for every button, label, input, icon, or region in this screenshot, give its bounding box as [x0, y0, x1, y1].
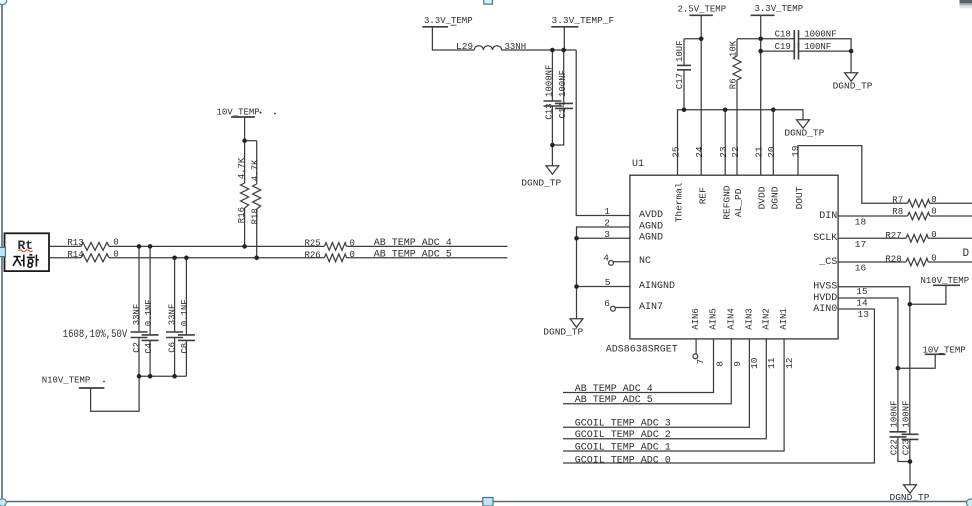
ground DGND_TP under C13 C14: [551, 145, 553, 166]
node C18 C19 ground: [849, 49, 854, 54]
svg-text:AB TEMP ADC 5: AB TEMP ADC 5: [374, 250, 452, 261]
svg-text:D: D: [963, 248, 970, 260]
svg-text:DGND: DGND: [770, 186, 781, 209]
capacitor C18: [793, 30, 795, 48]
frame left border: [1, 4, 3, 499]
svg-text:21: 21: [753, 146, 764, 158]
node 3.3V R6: [758, 37, 763, 42]
power 10V_TEMP left bar: [231, 116, 255, 118]
wire ground bus over U1: [678, 110, 804, 175]
power 10V_TEMP right bar: [925, 353, 946, 355]
node 2.5V C17: [699, 37, 704, 42]
wire pin 18 DIN to R8: [838, 215, 907, 217]
ground DGND_TP under AGND chain: [576, 287, 578, 319]
node C22 C23 ground: [908, 459, 913, 464]
svg-text:3.3V_TEMP_F: 3.3V_TEMP_F: [552, 15, 615, 26]
svg-text:0: 0: [931, 230, 936, 240]
wire R16 bottom: [244, 208, 246, 246]
svg-text:AGND: AGND: [639, 221, 663, 232]
svg-text:R27: R27: [885, 231, 901, 241]
wire AVDD feed down to pin 1: [576, 50, 630, 216]
svg-text:10V_TEMP: 10V_TEMP: [217, 108, 260, 118]
op-amp U1 body ADS8638SRGET: [630, 175, 838, 339]
svg-text:DGND_TP: DGND_TP: [833, 81, 873, 92]
node wire2 C8 tap: [184, 255, 189, 260]
svg-text:_CS: _CS: [818, 257, 837, 268]
svg-text:17: 17: [855, 239, 866, 250]
svg-text:R26: R26: [305, 250, 321, 260]
pin 4 NC stub with no-connect circle: [613, 261, 630, 263]
svg-text:R8: R8: [892, 207, 903, 217]
svg-text:AIN3: AIN3: [744, 308, 754, 330]
svg-text:100NF: 100NF: [804, 42, 831, 52]
svg-text:GCOIL TEMP ADC 1: GCOIL TEMP ADC 1: [575, 442, 671, 453]
capacitor C22: [897, 368, 899, 432]
svg-text:100NF: 100NF: [558, 70, 568, 97]
svg-text:33NH: 33NH: [505, 42, 527, 52]
svg-text:R7: R7: [892, 196, 903, 206]
svg-text:14: 14: [856, 297, 868, 308]
node wire1 C4 tap: [148, 244, 153, 249]
svg-text:10K: 10K: [728, 40, 738, 57]
svg-text:C19: C19: [775, 42, 791, 52]
wire N10V_TEMP stub: [910, 285, 946, 304]
svg-text:0.1NF: 0.1NF: [144, 299, 154, 326]
svg-text:L29: L29: [456, 41, 473, 52]
node caps bottom C4: [148, 374, 153, 379]
capacitor C14: [563, 50, 565, 103]
wire HVSS down to C23: [909, 304, 911, 434]
svg-text:0: 0: [931, 195, 936, 205]
wire R6 bottom to pin 22 AL_PD: [736, 80, 738, 175]
wire AGND chain pins 2 3 5: [577, 227, 630, 287]
wire R27 right: [928, 237, 972, 239]
svg-text:AGND: AGND: [639, 233, 663, 244]
resistor R25: [324, 243, 346, 251]
svg-text:R28: R28: [885, 255, 901, 265]
svg-text:C6: C6: [167, 342, 177, 353]
node bus pin23: [723, 108, 728, 113]
speck near N10V_TEMP: [103, 381, 105, 383]
capacitor C17: [683, 39, 685, 66]
node AVDD C13: [550, 48, 555, 53]
svg-text:1000NF: 1000NF: [545, 65, 555, 97]
wire pin 16 _CS to R28: [838, 261, 906, 263]
wire caps bottom bus: [139, 375, 186, 377]
svg-text:AIN4: AIN4: [726, 308, 736, 330]
svg-text:AVDD: AVDD: [639, 210, 663, 221]
svg-text:DGND_TP: DGND_TP: [784, 128, 824, 139]
svg-text:3.3V_TEMP: 3.3V_TEMP: [424, 16, 473, 26]
svg-text:2: 2: [604, 218, 610, 229]
selection handle top-left circle: [0, 0, 7, 5]
selection handle bottom-middle square: [483, 498, 493, 506]
resistor R13: [81, 242, 109, 250]
wire pin 20 DGND stub: [772, 110, 774, 175]
wire 3.3V_TEMP_F stub: [563, 27, 565, 50]
resistor R14: [81, 254, 109, 262]
svg-text:1000NF: 1000NF: [804, 30, 836, 40]
wire R18 bottom: [256, 209, 258, 258]
svg-text:HVSS: HVSS: [813, 282, 837, 293]
wire pin 8 AIN5 to AB TEMP ADC 4: [563, 339, 714, 393]
svg-text:DVDD: DVDD: [757, 186, 768, 209]
svg-text:0: 0: [113, 238, 118, 248]
wire R6 top link: [737, 38, 761, 40]
resistor R6: [736, 39, 738, 56]
svg-text:AIN0: AIN0: [813, 304, 837, 315]
node AGND pin5: [574, 284, 579, 289]
power 3.3V_TEMP_F bar: [551, 26, 578, 28]
wire 2.5V_TEMP feed to pin 24 REF: [700, 15, 702, 175]
capacitor C13: [551, 50, 553, 101]
svg-text:AIN7: AIN7: [639, 302, 663, 313]
svg-text:GCOIL TEMP ADC 0: GCOIL TEMP ADC 0: [575, 456, 671, 467]
svg-text:1: 1: [604, 206, 610, 217]
capacitor C2: [138, 246, 140, 332]
frame bottom border: [5, 501, 972, 503]
svg-text:16: 16: [855, 263, 867, 274]
svg-text:N10V_TEMP: N10V_TEMP: [42, 376, 91, 386]
svg-text:15: 15: [856, 286, 868, 297]
svg-text:9: 9: [732, 361, 743, 367]
ground DGND_TP under C18 C19: [850, 51, 852, 73]
wire pin 3: [577, 237, 630, 239]
block Korean text 저항: [13, 255, 39, 268]
node caps bottom C2: [137, 374, 142, 379]
node C13 C14 ground: [550, 143, 555, 148]
selection handle bottom-left circle: [0, 499, 6, 506]
wire R7 right: [930, 202, 972, 204]
svg-text:AIN1: AIN1: [779, 308, 789, 330]
inductor L29: [474, 46, 501, 50]
svg-text:20: 20: [766, 146, 777, 158]
speck dash after 3.3V_TEMP bar: [451, 24, 457, 26]
pin 6 AIN7 stub with no-connect circle: [615, 307, 630, 309]
svg-text:DGND_TP: DGND_TP: [543, 327, 583, 338]
wire pin 17 SCLK to R27: [838, 237, 906, 239]
wire pin 12 AIN1 to GCOIL TEMP ADC 1: [563, 339, 784, 451]
wire 10V_TEMP stub: [898, 354, 935, 368]
wire C18 left link: [761, 38, 795, 40]
svg-text:11: 11: [766, 357, 777, 369]
svg-text:1608,10%,50V: 1608,10%,50V: [63, 329, 128, 341]
svg-text:AB TEMP ADC 4: AB TEMP ADC 4: [575, 384, 653, 395]
svg-text:AIN2: AIN2: [761, 308, 771, 330]
svg-text:100NF: 100NF: [889, 400, 899, 427]
node wire1 R16 tap: [242, 244, 247, 249]
svg-text:HVDD: HVDD: [813, 293, 837, 304]
node AVDD C14: [561, 48, 566, 53]
wire 10V_TEMP stub: [244, 117, 246, 141]
wire pin 13 AIN0 to GCOIL TEMP ADC 0: [563, 309, 874, 463]
wire pin 10 AIN3 to GCOIL TEMP ADC 3: [563, 339, 749, 427]
wire R14 bus left: [49, 257, 81, 259]
svg-text:13: 13: [858, 309, 870, 320]
resistor R7: [908, 200, 930, 208]
spellcheck squiggle under Rt: [19, 250, 33, 252]
svg-text:C22: C22: [889, 439, 899, 455]
power N10V_TEMP left bar: [79, 387, 104, 389]
svg-text:0: 0: [113, 249, 118, 259]
svg-text:R6: R6: [728, 78, 738, 89]
svg-text:REF: REF: [697, 187, 708, 204]
capacitor C23: [902, 433, 919, 435]
wire pin 9 AIN4 to AB TEMP ADC 5: [563, 339, 731, 404]
svg-text:25: 25: [670, 146, 681, 158]
svg-text:AB TEMP ADC 5: AB TEMP ADC 5: [575, 395, 653, 406]
svg-text:DOUT: DOUT: [794, 186, 805, 209]
svg-text:AB TEMP ADC 4: AB TEMP ADC 4: [374, 238, 452, 249]
svg-text:C23: C23: [902, 439, 912, 455]
node 3.3V C19: [758, 49, 763, 54]
svg-text:3: 3: [604, 229, 610, 240]
svg-text:33NF: 33NF: [167, 304, 177, 326]
wire C18 right: [799, 39, 852, 51]
svg-text:2.5V_TEMP: 2.5V_TEMP: [678, 4, 727, 14]
wire pin 19 DOUT to R7: [798, 146, 908, 204]
pin 7 AIN6 stub with no-connect circle: [695, 339, 697, 354]
power 2.5V_TEMP bar: [689, 14, 712, 16]
svg-text:NC: NC: [639, 256, 651, 267]
svg-text:18: 18: [855, 217, 867, 228]
selection handle top-middle square: [484, 0, 493, 4]
svg-text:7: 7: [695, 359, 706, 365]
svg-text:4.7K: 4.7K: [251, 159, 261, 181]
resistor R18: [253, 184, 261, 209]
svg-text:R13: R13: [67, 238, 83, 248]
svg-text:R16: R16: [237, 207, 247, 223]
resistor R16: [241, 183, 249, 208]
svg-text:0: 0: [350, 250, 355, 260]
node HVDD 10V: [896, 366, 901, 371]
speck near 10V_TEMP: [260, 112, 262, 114]
wire C19 right: [799, 50, 852, 52]
resistor R28: [906, 258, 928, 266]
svg-text:C18: C18: [775, 29, 791, 39]
svg-text:DGND_TP: DGND_TP: [890, 492, 930, 503]
wire R28 right: [928, 261, 972, 263]
svg-text:10V_TEMP: 10V_TEMP: [923, 345, 966, 355]
node wire2 R18 tap: [254, 255, 259, 260]
wire pin 15 HVSS to N10V_TEMP: [838, 287, 910, 305]
resistor R8: [908, 212, 930, 220]
wire bus2 right AB TEMP ADC 5: [347, 257, 508, 259]
svg-text:U1: U1: [632, 159, 644, 170]
wire L29 to AVDD node: [502, 49, 577, 51]
svg-text:0: 0: [931, 253, 936, 263]
node HVSS N10V: [908, 302, 913, 307]
svg-text:8: 8: [714, 361, 725, 367]
svg-text:19: 19: [790, 145, 801, 157]
wire R13 bus left: [49, 245, 81, 247]
wire R16 top: [244, 141, 246, 183]
resistor R26: [324, 254, 346, 262]
node wire1 C2 tap: [137, 244, 142, 249]
power N10V_TEMP right bar: [933, 284, 960, 286]
svg-text:22: 22: [730, 146, 741, 158]
node AGND pin3: [574, 236, 579, 241]
wire 3.3V_TEMP stub: [432, 27, 474, 50]
node 10V_TEMP R16 R18: [242, 138, 247, 143]
svg-text:AIN5: AIN5: [709, 308, 719, 330]
wire bus1 right AB TEMP ADC 4: [347, 245, 508, 247]
svg-text:N10V_TEMP: N10V_TEMP: [921, 276, 970, 286]
svg-text:6: 6: [604, 298, 610, 309]
svg-text:4: 4: [603, 253, 609, 264]
node bus C17: [682, 108, 687, 113]
svg-text:C13: C13: [545, 103, 555, 119]
ground DGND_TP at bus end: [797, 120, 810, 129]
wire bus2 middle: [109, 257, 324, 259]
svg-text:GCOIL TEMP ADC 3: GCOIL TEMP ADC 3: [575, 419, 671, 430]
wire 3.3V_TEMP feed to pin 21 DVDD: [760, 15, 762, 175]
wire bus1 middle: [109, 245, 324, 247]
power 3.3V_TEMP top-left bar: [422, 26, 448, 28]
wire C17 link: [684, 38, 701, 40]
wire pin 11 AIN2 to GCOIL TEMP ADC 2: [563, 339, 766, 439]
svg-text:AIN6: AIN6: [691, 308, 701, 330]
scrollbar corner top-right: [960, 0, 972, 3]
node caps bottom C6: [172, 374, 177, 379]
node wire2 C6 tap: [172, 255, 177, 260]
svg-text:C14: C14: [558, 102, 568, 118]
svg-text:33NF: 33NF: [132, 304, 142, 326]
svg-text:100NF: 100NF: [902, 400, 912, 427]
capacitor C8: [185, 258, 187, 335]
block Rt box: [5, 233, 50, 271]
svg-text:REFGND: REFGND: [721, 185, 732, 220]
svg-text:R14: R14: [67, 250, 83, 260]
svg-text:C4: C4: [144, 343, 154, 354]
svg-text:ADS8638SRGET: ADS8638SRGET: [606, 345, 678, 356]
svg-text:Thermal: Thermal: [674, 182, 685, 222]
power 3.3V_TEMP right bar: [751, 14, 775, 16]
svg-text:C2: C2: [132, 342, 142, 353]
capacitor C19: [793, 43, 795, 60]
svg-text:10: 10: [749, 357, 760, 369]
svg-text:23: 23: [718, 146, 729, 158]
svg-text:SCLK: SCLK: [813, 233, 837, 244]
svg-text:AINGND: AINGND: [639, 281, 675, 292]
svg-text:R25: R25: [305, 239, 321, 249]
svg-text:10UF: 10UF: [675, 40, 685, 62]
svg-text:4.7K: 4.7K: [237, 157, 247, 179]
svg-text:C17: C17: [675, 73, 685, 89]
svg-text:GCOIL TEMP ADC 2: GCOIL TEMP ADC 2: [575, 430, 671, 441]
capacitor C4: [149, 246, 151, 335]
selection handle bottom-right circle: [967, 499, 972, 506]
wire pin 14 HVDD right: [838, 298, 898, 368]
wire R8 right: [930, 215, 972, 217]
node bus pin20: [771, 108, 776, 113]
ground DGND_TP bottom right: [909, 462, 911, 485]
capacitor C6: [174, 258, 176, 332]
svg-text:0.1NF: 0.1NF: [180, 299, 190, 326]
svg-text:AL_PD: AL_PD: [733, 188, 744, 217]
wire C19 left link: [761, 50, 795, 52]
svg-text:R18: R18: [251, 208, 261, 224]
wire R18 branch: [245, 140, 257, 142]
svg-text:5: 5: [605, 277, 611, 288]
svg-text:C8: C8: [180, 343, 190, 354]
svg-text:DGND_TP: DGND_TP: [521, 178, 561, 189]
svg-text:0: 0: [931, 206, 936, 216]
svg-text:24: 24: [694, 146, 705, 158]
svg-text:0: 0: [350, 238, 355, 248]
svg-text:3.3V_TEMP: 3.3V_TEMP: [755, 4, 804, 14]
resistor R27: [906, 235, 928, 243]
svg-text:12: 12: [784, 357, 795, 369]
selection handle left-middle square: [0, 247, 6, 256]
wire pin 23 REFGND stub: [724, 110, 726, 175]
svg-text:DIN: DIN: [819, 211, 837, 222]
wire N10V_TEMP return: [91, 376, 140, 411]
